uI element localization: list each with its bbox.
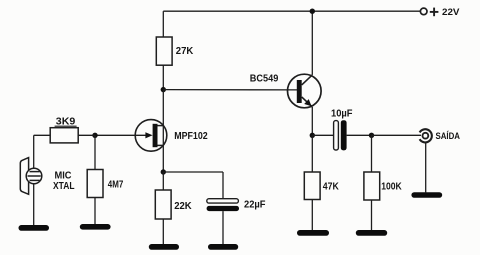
ground under jack xyxy=(411,192,442,198)
resistor 27K xyxy=(156,37,193,65)
svg-text:47K: 47K xyxy=(323,182,339,193)
wire mic to 3K9 xyxy=(34,134,51,136)
resistor 3K9 xyxy=(50,117,95,143)
svg-text:22K: 22K xyxy=(174,201,192,212)
svg-text:SAÍDA: SAÍDA xyxy=(436,130,461,141)
terminal +22V xyxy=(420,7,460,17)
svg-text:100K: 100K xyxy=(381,182,402,193)
wire collector up xyxy=(311,11,313,75)
transistor BC549 xyxy=(250,74,321,108)
wire top supply rail xyxy=(163,10,420,12)
wire 47K top xyxy=(311,135,313,172)
resistor 4M7 xyxy=(87,170,123,198)
wire 22uF top xyxy=(222,172,224,199)
wire 4M7 bottom xyxy=(94,198,96,225)
wire 22K top xyxy=(162,172,164,190)
wire 27K top xyxy=(162,11,164,37)
svg-text:BC549: BC549 xyxy=(250,74,279,85)
node junction 27K / base xyxy=(161,87,166,92)
svg-text:MIC: MIC xyxy=(55,171,72,182)
wire drain column of MPF102 xyxy=(162,90,164,172)
wire 100K bottom xyxy=(371,200,373,230)
wire mic column xyxy=(33,135,35,225)
terminal SAIDA output jack xyxy=(420,129,461,142)
wire 47K bottom xyxy=(311,200,313,231)
ground under 22uF xyxy=(208,244,238,250)
microphone MIC XTAL xyxy=(20,158,74,195)
svg-text:4M7: 4M7 xyxy=(108,180,124,191)
svg-text:22V: 22V xyxy=(442,7,460,17)
resistor 47K xyxy=(304,172,339,200)
wire source to 22uF xyxy=(163,171,223,173)
svg-text:22µF: 22µF xyxy=(244,200,266,211)
node junction source / 22K / 22uF xyxy=(161,169,166,174)
ground under 47K xyxy=(297,230,329,236)
svg-text:27K: 27K xyxy=(176,46,194,57)
wire output node to jack xyxy=(372,134,422,136)
capacitor 22uF xyxy=(207,199,266,211)
wire base of BC549 xyxy=(163,89,297,91)
svg-text:XTAL: XTAL xyxy=(53,181,75,192)
node junction gate / 3K9 / 4M7 xyxy=(92,133,97,138)
ground under mic xyxy=(19,225,50,231)
ground under 4M7 xyxy=(80,224,111,230)
resistor 22K xyxy=(155,190,191,219)
wire 22uF bottom xyxy=(222,211,224,244)
ground under 100K xyxy=(356,230,387,236)
resistor 100K xyxy=(364,172,402,200)
transistor MPF102 xyxy=(95,120,208,152)
node junction collector / rail xyxy=(310,9,315,14)
svg-text:MPF102: MPF102 xyxy=(174,131,208,142)
node junction 10uF / 100K / output xyxy=(369,133,374,138)
wire 22K bottom xyxy=(162,219,164,244)
capacitor 10uF xyxy=(331,109,353,151)
wire 100K top xyxy=(371,135,373,172)
svg-text:10µF: 10µF xyxy=(331,109,353,120)
wire emitter down xyxy=(311,107,313,135)
wire 27K bottom to base node xyxy=(162,65,164,89)
wire 10uF to output node xyxy=(347,134,372,136)
node junction emitter / 47K / 10uF xyxy=(310,133,315,138)
ground under 22K xyxy=(149,244,179,250)
wire 4M7 top xyxy=(94,135,96,169)
wire jack to ground xyxy=(425,143,427,193)
wire emitter to 10uF xyxy=(312,134,333,136)
